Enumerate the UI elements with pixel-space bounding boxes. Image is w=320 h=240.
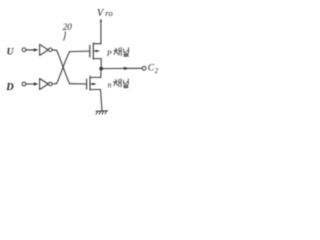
wire from A1 output — [52, 49, 56, 52]
wire nmos source to ground — [101, 90, 103, 111]
inverter A2 bubble — [49, 82, 53, 86]
wire to PMOS gate — [70, 50, 90, 53]
supply wire Vdd — [100, 21, 102, 44]
output arrowhead — [124, 67, 130, 70]
svg-text:n: n — [108, 81, 112, 90]
arrowhead on U wire — [34, 48, 39, 51]
output terminal C2 — [142, 66, 146, 70]
arrowhead on D wire — [34, 82, 39, 85]
wire D input — [26, 83, 34, 85]
inverter A1 triangle — [40, 44, 49, 55]
svg-text:U: U — [7, 48, 15, 58]
callout leader line — [64, 32, 66, 41]
node junction dot — [99, 67, 103, 71]
output wire — [103, 67, 142, 69]
svg-text:ro: ro — [105, 9, 113, 18]
wire pmos drain to node — [100, 59, 102, 69]
pmos Q1 channel — [92, 43, 94, 59]
wire U input — [26, 49, 34, 51]
wire to NMOS gate — [70, 83, 87, 85]
pmos Q1 bulk arrow — [94, 50, 99, 52]
nmos Q2 gate bar — [86, 79, 88, 89]
wire crossing diagonal from A2 to PMOS gate — [57, 52, 70, 84]
pmos Q1 source lead — [93, 43, 101, 45]
svg-text:P: P — [106, 49, 112, 58]
wire crossing diagonal from A1 to NMOS gate — [57, 50, 70, 83]
svg-text:D: D — [5, 82, 14, 93]
wire node to nmos drain — [100, 69, 102, 78]
nmos Q2 drain lead — [90, 76, 101, 78]
nmos Q2 bulk arrow — [90, 83, 95, 85]
nmos Q2 channel — [89, 76, 91, 90]
input terminal U — [22, 48, 26, 52]
svg-text:2: 2 — [155, 68, 159, 75]
inverter A2 triangle — [40, 79, 49, 90]
supply arrowhead — [100, 19, 102, 22]
input terminal D — [22, 82, 26, 86]
svg-text:20: 20 — [63, 22, 73, 32]
pmos Q1 drain lead — [93, 58, 101, 60]
nmos Q2 source lead — [90, 89, 101, 91]
wire from A2 output — [52, 83, 56, 85]
pmos Q1 gate bar — [89, 45, 91, 57]
ground — [96, 111, 108, 115]
inverter A1 bubble — [49, 48, 53, 52]
